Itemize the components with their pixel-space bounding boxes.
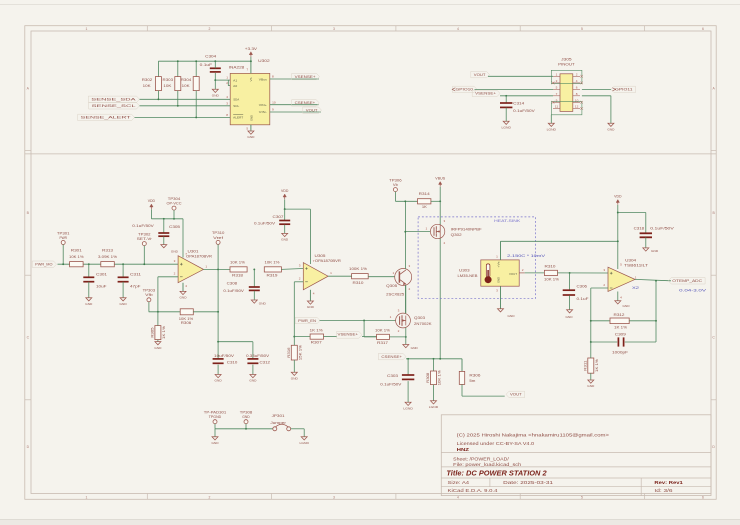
svg-text:GND: GND (154, 346, 162, 350)
svg-text:GND: GND (281, 238, 289, 242)
svg-text:A0: A0 (233, 84, 237, 88)
test point TP304 (172, 206, 176, 210)
global label VOUT (471, 71, 490, 77)
wire shunt bottom (461, 384, 463, 396)
svg-text:1: 1 (86, 27, 88, 31)
global label SENSE_ALERT (78, 114, 135, 120)
svg-text:R319: R319 (267, 274, 278, 278)
ground under GPIO11 branch (608, 123, 614, 126)
junction VSENSE+-C314 (505, 95, 507, 97)
junction collector node (404, 200, 406, 202)
junction fb node right (655, 320, 657, 322)
svg-text:47pF: 47pF (130, 285, 141, 289)
wire C308 stub (253, 269, 255, 287)
svg-text:10K: 10K (143, 84, 152, 88)
wire C301 stub (88, 264, 90, 277)
svg-text:6: 6 (702, 27, 704, 31)
svg-text:4: 4 (457, 27, 459, 31)
svg-text:3: 3 (333, 27, 335, 31)
wire J305 pin6 to GPIO11 (582, 88, 611, 90)
svg-text:Id: 3/6: Id: 3/6 (654, 488, 673, 493)
svg-text:15K 1%: 15K 1% (298, 345, 302, 360)
svg-text:TP310: TP310 (212, 231, 225, 235)
op-amp U305 body (303, 263, 328, 290)
resistor R308 (431, 371, 437, 385)
wire PWR_EN wire (320, 320, 396, 322)
capacitor C304 (210, 67, 221, 69)
svg-text:GND: GND (171, 250, 179, 254)
svg-text:LM35-NEB: LM35-NEB (458, 274, 479, 278)
wire U305 out to R310 (328, 275, 352, 277)
svg-text:+Vs: +Vs (496, 261, 500, 268)
wire GPIO10 to J305 pin5 (475, 88, 554, 90)
wire SCL wire (140, 105, 231, 107)
svg-text:C308: C308 (227, 281, 238, 285)
wire R305 top (157, 312, 159, 326)
ground under TP-PAD301 (212, 437, 218, 440)
svg-text:R302: R302 (142, 78, 153, 82)
test point TP-PAD301 (213, 420, 217, 424)
wire U303 vcc wire (501, 240, 618, 242)
wire C301 to gnd (88, 282, 90, 298)
wire SDA wire (140, 98, 231, 100)
svg-text:GND: GND (651, 249, 659, 253)
junction U304 fb tap (655, 280, 657, 282)
svg-text:R303: R303 (163, 78, 174, 82)
svg-text:VIN+: VIN+ (259, 103, 267, 107)
wire pin8 down to GND (610, 96, 612, 123)
svg-text:TP301: TP301 (57, 231, 70, 235)
svg-text:X2: X2 (632, 286, 639, 290)
U302 bottom pin stub (250, 125, 252, 131)
junction rail-R304 (195, 60, 197, 62)
junction C310 node (217, 341, 219, 343)
svg-text:Title: DC POWER STATION 2: Title: DC POWER STATION 2 (446, 469, 547, 478)
IC U303 LM35 body (481, 260, 519, 286)
power VBUS (439, 182, 442, 185)
ground under C311 (120, 298, 126, 301)
svg-text:C314: C314 (513, 101, 524, 105)
U303 thermometer icon (486, 264, 490, 277)
svg-text:R306: R306 (469, 374, 480, 378)
wire R308 bottom (433, 385, 435, 401)
junction C301 node (88, 263, 90, 265)
resistor R319 (264, 267, 281, 272)
svg-text:GND: GND (247, 135, 255, 139)
svg-text:SET-Vr: SET-Vr (137, 237, 153, 241)
U303 gnd pin wire (500, 286, 502, 308)
svg-text:0.1uF/50V: 0.1uF/50V (650, 227, 675, 231)
svg-text:VDD: VDD (614, 195, 622, 199)
wire J305 pin11 down (550, 115, 552, 123)
capacitor C310 (213, 358, 224, 360)
svg-text:R310: R310 (545, 265, 556, 269)
junction fb node left (590, 320, 592, 322)
test point TP301 (61, 241, 65, 245)
U305 +/- marks (305, 267, 308, 270)
svg-text:Q305: Q305 (386, 284, 397, 288)
wire C318 branch (618, 212, 646, 214)
junction C311 node (122, 263, 124, 265)
global label PWR_EN (295, 317, 320, 323)
svg-text:C307: C307 (273, 215, 284, 219)
wire R314 to VBUS (431, 200, 440, 202)
junction C303 tap (407, 358, 409, 360)
svg-text:0.1uF: 0.1uF (200, 63, 213, 67)
wire fb minus vertical (590, 288, 592, 342)
svg-text:GND: GND (622, 304, 630, 308)
U302 top pin VS stub (250, 61, 252, 73)
svg-text:TPGND: TPGND (209, 415, 222, 419)
junction C307 node (284, 208, 286, 210)
svg-text:HEAT-SINK: HEAT-SINK (494, 219, 521, 223)
wire fb R312 left (591, 320, 610, 322)
junction rail-R303 (177, 60, 179, 62)
svg-text:File: power_load.kicad_sch: File: power_load.kicad_sch (453, 462, 522, 467)
wire vcc rail drop to U301 (182, 219, 184, 258)
capacitor C306 (563, 289, 575, 291)
svg-text:PWR_EN: PWR_EN (298, 319, 316, 323)
svg-text:0.1uF/50V: 0.1uF/50V (254, 222, 276, 226)
wire R303 to SCL line (177, 91, 179, 106)
wire VSENSE+ to J305 pin7 (500, 95, 553, 97)
svg-text:VDD: VDD (281, 189, 289, 193)
page bottom band (0, 520, 740, 525)
resistor R316 (291, 345, 297, 360)
junction TP308 node (245, 428, 247, 430)
svg-text:INA228: INA228 (229, 66, 245, 70)
svg-text:Licensed under CC-BY-SA V4.0: Licensed under CC-BY-SA V4.0 (457, 441, 535, 446)
svg-text:1K 1%: 1K 1% (595, 359, 599, 372)
title block outline (441, 415, 711, 496)
wire A1 wire (215, 79, 230, 81)
wire C306 gnd wire (569, 296, 571, 310)
capacitor C318 (640, 232, 652, 234)
ground under R305 (155, 342, 161, 345)
resistor R310 base (352, 274, 369, 279)
ground under C301 (86, 298, 92, 301)
ground under C306 (567, 310, 573, 313)
ground LGND under J305 (548, 123, 554, 126)
GPIO10 arrow glyph (452, 88, 455, 91)
svg-text:C309: C309 (615, 332, 626, 336)
svg-text:VOUT: VOUT (474, 73, 487, 77)
resistor R312 (610, 318, 629, 324)
junction R311 node (590, 341, 592, 343)
wire R317 to Q303 source (389, 336, 405, 338)
svg-text:TP308: TP308 (240, 411, 253, 415)
wire C312 stub (252, 342, 254, 359)
svg-text:R301: R301 (71, 249, 82, 253)
svg-text:10K: 10K (163, 84, 172, 88)
resistor R314 (418, 199, 431, 204)
svg-text:VS: VS (249, 78, 253, 82)
wire R316 top stub (293, 337, 295, 346)
svg-text:Q303: Q303 (414, 316, 425, 320)
svg-text:GND: GND (259, 302, 267, 306)
svg-text:0.1uF/50V: 0.1uF/50V (132, 224, 155, 228)
wire R307 to VSENSE label (324, 336, 338, 338)
svg-text:R308: R308 (426, 372, 430, 382)
junction C304-A1 node (214, 79, 216, 81)
svg-text:3.09K 1%: 3.09K 1% (98, 255, 117, 259)
svg-text:GND: GND (411, 346, 419, 350)
wire PWR_MO wire (58, 263, 179, 265)
svg-text:2: 2 (209, 495, 211, 499)
svg-text:1K 1%: 1K 1% (162, 326, 166, 339)
svg-text:Date: 2025-03-31: Date: 2025-03-31 (503, 480, 554, 485)
svg-text:10K 1%: 10K 1% (544, 278, 559, 282)
svg-text:(C) 2025 Hiroshi Nakajima <hna: (C) 2025 Hiroshi Nakajima <hnakamiru1105… (457, 433, 610, 438)
svg-text:TP303: TP303 (143, 289, 156, 293)
wire VBUS down (439, 187, 441, 225)
capacitor C311 (118, 276, 129, 278)
junction PWR_EN tap (363, 320, 365, 322)
wire TPGND down (214, 429, 216, 437)
wire VDD2 down (284, 199, 286, 209)
heat-sink dashed box (418, 217, 535, 298)
wire VDD2 horiz (285, 208, 311, 210)
svg-text:C311: C311 (130, 272, 141, 276)
wire R305 bottom (157, 340, 159, 342)
svg-text:R314: R314 (419, 192, 430, 196)
wire U304 output wire (635, 279, 671, 280)
U303 VOUT pin stub (519, 272, 525, 274)
svg-text:TP302: TP302 (138, 232, 151, 236)
wire U304 minus wire (591, 287, 608, 289)
J305 unconnected pin marks (552, 82, 555, 85)
svg-text:C301: C301 (96, 272, 107, 276)
svg-text:U305: U305 (315, 254, 326, 258)
resistor R303 (175, 77, 181, 91)
svg-text:1000pF: 1000pF (612, 350, 628, 354)
wire TP301 stub (62, 245, 64, 265)
svg-text:HNZ: HNZ (457, 447, 470, 452)
U304 gnd pin (617, 292, 619, 301)
svg-text:GND: GND (242, 415, 250, 419)
svg-text:GND: GND (607, 127, 615, 131)
wire C307 stub (284, 209, 286, 220)
J305 pin stubs (553, 75, 560, 77)
svg-text:0.33uF/50V: 0.33uF/50V (246, 354, 270, 358)
wire R311 top (590, 342, 592, 358)
ground under U305 (307, 301, 313, 304)
svg-text:GND: GND (496, 277, 500, 283)
svg-text:0.1uF: 0.1uF (577, 297, 589, 301)
global label CSENSE+ (292, 100, 320, 106)
wire R304 to ALERT line (195, 91, 197, 118)
wire C305 to gnd (163, 236, 165, 244)
page top hairline (0, 4, 740, 6)
junction TP301 node (62, 263, 64, 265)
junction feedback tap (217, 268, 219, 270)
section separator line (25, 153, 716, 155)
global label SENSE_SDA (88, 96, 139, 102)
svg-text:U304: U304 (625, 258, 636, 262)
wire C309 right (625, 341, 656, 343)
wire R311 bottom (590, 373, 592, 380)
wire drop to R317 (364, 336, 377, 338)
GPIO11 arrow glyph (612, 88, 615, 91)
svg-text:R307: R307 (311, 341, 322, 345)
wire U301 minus wire (158, 276, 178, 278)
svg-text:Vfb: Vfb (145, 293, 153, 297)
wire cap bridge (218, 341, 253, 343)
svg-text:PWR_MO: PWR_MO (35, 262, 53, 266)
svg-text:CSENSE+: CSENSE+ (295, 101, 316, 105)
wire C314 to LGND (505, 108, 507, 121)
wire VDD3 down (617, 205, 619, 269)
wire U305 minus drop (293, 282, 295, 337)
svg-text:TSB611ILT: TSB611ILT (624, 263, 648, 267)
junction C318 tap (617, 212, 619, 214)
ground under C310 (215, 375, 221, 378)
svg-text:LGND: LGND (300, 441, 310, 445)
wire VIN+ wire to CSENSE+ (270, 104, 319, 106)
svg-text:10uF: 10uF (96, 285, 107, 289)
wire R308 drop (433, 359, 435, 371)
wire C311 to gnd (122, 282, 124, 298)
junction C308 node (253, 268, 255, 270)
svg-text:GND: GND (179, 296, 187, 300)
wire TP310 stub (217, 244, 219, 269)
test point TP306 (393, 188, 397, 192)
wire C310 gnd wire (217, 365, 219, 375)
wire VBus wire to VSENSE+ (270, 78, 319, 80)
resistor R306 feedback (180, 309, 193, 315)
wire fb vertical (655, 281, 657, 342)
svg-text:SENSE_ALERT: SENSE_ALERT (81, 116, 133, 120)
U301 gnd pin (182, 283, 184, 292)
IC U302 INA228 body (230, 73, 270, 124)
wire TP306 to R314 (395, 200, 417, 202)
junction SCL-R303 (177, 105, 179, 107)
wire VIN- wire to VOUT (270, 111, 321, 113)
svg-text:Jumper: Jumper (270, 421, 287, 425)
svg-text:+3.3V: +3.3V (245, 47, 258, 51)
wire TP306 stub (394, 192, 396, 202)
wire shunt to VOUT (462, 395, 505, 397)
svg-text:KiCad E.D.A. 9.0.4: KiCad E.D.A. 9.0.4 (448, 488, 498, 493)
Q303 drain wire (405, 285, 407, 313)
junction C306 node (569, 272, 571, 274)
ground under C312 (250, 375, 256, 378)
svg-text:10K: 10K (182, 84, 191, 88)
resistor R317 (377, 334, 390, 339)
svg-text:GND: GND (85, 302, 93, 306)
capacitor C307 (279, 220, 290, 222)
svg-text:0.1uF/50V: 0.1uF/50V (513, 109, 536, 113)
junction rail-C304 (214, 60, 216, 62)
ground LGND under C303 (405, 402, 411, 405)
wire VOUT to J305 pin1 (488, 75, 553, 77)
resistor R306 shunt (459, 371, 464, 384)
svg-text:100K 1%: 100K 1% (349, 267, 367, 271)
svg-text:Vref: Vref (213, 236, 223, 240)
svg-text:Size: A4: Size: A4 (448, 480, 470, 485)
svg-text:R310: R310 (353, 281, 364, 285)
Q305 collector wire (405, 201, 407, 269)
transistor Q302 IRFP9140NPBF (430, 224, 444, 238)
power VDD1 (150, 204, 153, 207)
resistor R318 (230, 267, 247, 272)
global label CSENSE+ (378, 353, 406, 359)
ground under C307 (282, 233, 288, 236)
wire C305 top stub (163, 219, 165, 233)
svg-text:VSENSE+: VSENSE+ (475, 92, 496, 96)
svg-text:10K 1%: 10K 1% (375, 329, 390, 333)
svg-text:TP-PAD301: TP-PAD301 (204, 411, 227, 415)
shunt drop (461, 359, 463, 372)
svg-text:VOUT: VOUT (306, 108, 319, 112)
svg-text:VOUT: VOUT (510, 393, 523, 397)
test point TP303 (147, 298, 151, 302)
svg-text:OTEMP_ADC: OTEMP_ADC (672, 279, 702, 283)
global label PWR_MO (32, 261, 56, 267)
junction R317-source node (405, 336, 407, 338)
wire A0 up to A1 (227, 80, 229, 86)
wire JP301 LGND down (303, 429, 305, 437)
capacitor C314 (500, 102, 512, 104)
op-amp U304 body (608, 267, 635, 291)
svg-text:LGND: LGND (429, 405, 439, 409)
svg-text:GND: GND (507, 314, 515, 318)
wire R319 to U305 (281, 268, 303, 271)
wire TPGND stub (214, 424, 216, 429)
ground under R316 (291, 372, 297, 375)
svg-text:Rev: Rev1: Rev: Rev1 (654, 480, 683, 485)
svg-text:5m: 5m (469, 379, 475, 383)
svg-text:PINOUT: PINOUT (558, 63, 575, 67)
svg-text:VOUT: VOUT (509, 272, 517, 276)
global label VSENSE+ (472, 90, 500, 96)
svg-text:3: 3 (333, 495, 335, 499)
junction drain tap (439, 358, 441, 360)
svg-text:TP304: TP304 (168, 197, 181, 201)
wire U301 minus drop (157, 277, 159, 312)
junction gate tap node (404, 231, 406, 233)
wire C310 stub (217, 342, 219, 359)
junction R316 node (293, 336, 295, 338)
ground LGND under C314 (503, 121, 509, 124)
wire C311 stub (122, 264, 124, 277)
power +3.3V arrow (249, 52, 252, 55)
svg-text:A1: A1 (233, 78, 237, 82)
svg-text:0.1uF/50V: 0.1uF/50V (223, 289, 245, 293)
ground under R311 (588, 380, 594, 383)
svg-text:R304: R304 (181, 78, 192, 82)
svg-text:2-150C * 10mV: 2-150C * 10mV (507, 254, 546, 258)
svg-text:0.1uF/50V: 0.1uF/50V (380, 382, 402, 386)
svg-text:Q302: Q302 (451, 233, 462, 237)
svg-text:LGND: LGND (547, 127, 557, 131)
ground under U303 (498, 309, 504, 312)
svg-text:OPA1870BVR: OPA1870BVR (186, 254, 213, 258)
global label GPIO10 (453, 86, 478, 92)
wire U305 vcc drop (309, 209, 311, 264)
svg-text:SCL: SCL (233, 104, 239, 108)
global label VSENSE+ (292, 73, 320, 79)
ground under Q303 (403, 345, 409, 348)
capacitor C301 (83, 276, 94, 278)
wire R310b to U304 (558, 272, 609, 274)
svg-text:R305: R305 (151, 327, 155, 337)
global label OTEMP_ADC (668, 278, 705, 284)
svg-text:2SCX825: 2SCX825 (386, 292, 404, 296)
svg-text:PWR: PWR (59, 236, 67, 240)
transistor Q305 2SCX825 (395, 269, 412, 286)
svg-text:VSENSE+: VSENSE+ (295, 75, 316, 79)
